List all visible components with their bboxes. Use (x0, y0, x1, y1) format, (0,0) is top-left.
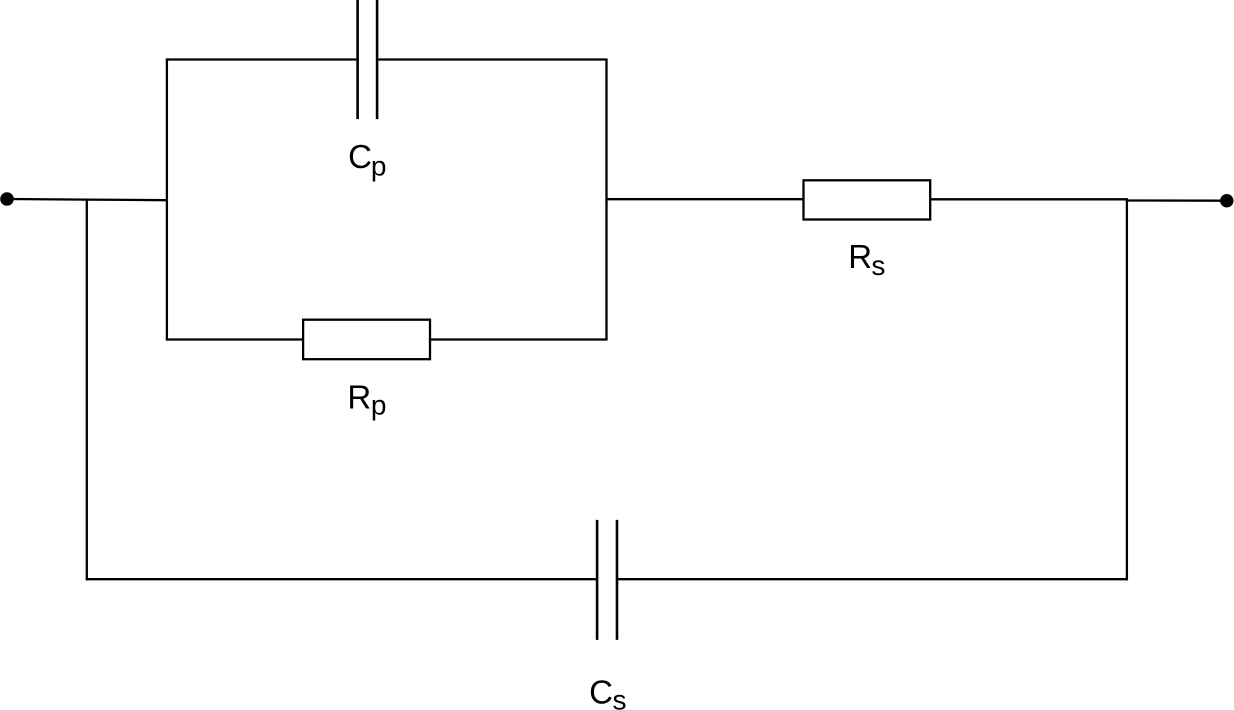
label Rp (347, 379, 386, 421)
wire: bottom rail right segment (618, 578, 1128, 580)
capacitor Cp plates (358, 0, 378, 119)
right terminal node (1220, 194, 1233, 207)
label Cp (348, 138, 386, 181)
svg-text:s: s (871, 250, 885, 281)
wire: bottom rail left segment (86, 578, 596, 580)
wire: Rs to right terminal (929, 199, 1226, 200)
svg-text:C: C (589, 673, 613, 710)
resistor Rp (303, 320, 430, 360)
wire: left branch vertical (node at x=87 down to bottom rail) (86, 199, 88, 580)
svg-text:R: R (848, 238, 872, 275)
left terminal node (0, 192, 14, 206)
wire: left terminal to parallel block (7, 199, 167, 200)
wire: bottom edge of parallel loop (Rp branch) (166, 338, 608, 340)
svg-text:s: s (613, 685, 627, 710)
capacitor Cs plates (597, 520, 617, 640)
wire: left edge of parallel loop (166, 59, 168, 341)
wire: top edge left segment (to Cp) (166, 58, 357, 60)
wire: right branch vertical (1126, 199, 1128, 580)
label Cs (589, 673, 626, 710)
svg-text:p: p (371, 150, 387, 181)
label Rs (848, 238, 885, 281)
wire: right edge of parallel loop (605, 59, 607, 341)
svg-text:p: p (371, 390, 387, 421)
wire: top edge right segment (from Cp) (378, 58, 607, 60)
wire: parallel block to Rs (607, 198, 805, 200)
resistor Rs (804, 180, 931, 219)
svg-text:R: R (347, 379, 371, 416)
svg-text:C: C (348, 138, 372, 175)
